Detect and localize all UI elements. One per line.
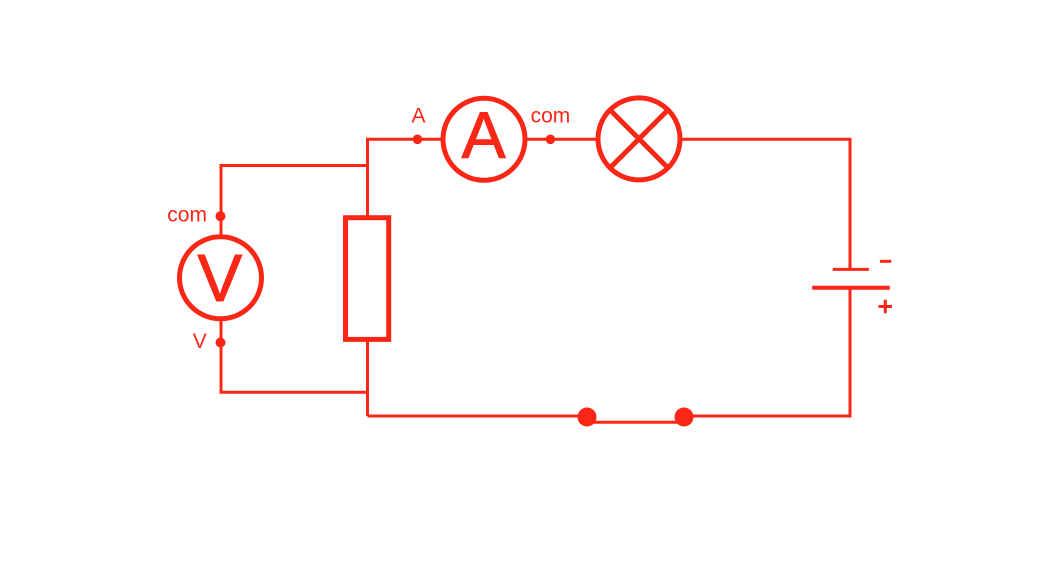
svg-text:com: com [167, 203, 207, 226]
lamp L1 cross line 1 [610, 109, 669, 168]
switch SW1 right terminal dot [675, 408, 694, 427]
wire: right vertical lower + bottom right segment [684, 288, 850, 416]
svg-text:A: A [462, 98, 506, 172]
svg-text:V: V [197, 241, 242, 316]
voltmeter U1 circle [180, 237, 262, 319]
battery BT1 minus sign [880, 260, 891, 263]
battery BT1 plus sign [879, 300, 893, 314]
svg-text:A: A [412, 104, 426, 127]
wire: voltmeter branch [221, 166, 368, 393]
node com terminal dot (ammeter com) [546, 135, 556, 145]
node V terminal dot (voltmeter V) [216, 338, 226, 348]
battery BT1 negative plate (short) [833, 268, 869, 271]
wire: bottom left segment [368, 415, 588, 418]
svg-text:com: com [531, 104, 571, 127]
switch SW1 left terminal dot [578, 408, 597, 427]
svg-text:V: V [193, 330, 207, 353]
battery BT1 positive plate (long) [812, 286, 890, 290]
wire: main loop top (left vertical, top wire, right vertical upper) [368, 139, 851, 416]
lamp L1 circle [598, 98, 680, 180]
node com terminal dot (voltmeter com) [216, 211, 226, 221]
resistor R1 [346, 218, 389, 340]
lamp L1 cross line 2 [610, 109, 669, 168]
switch SW1 blade [589, 421, 682, 424]
node A terminal dot (ammeter A) [413, 135, 423, 145]
ammeter U2 circle [443, 98, 525, 180]
